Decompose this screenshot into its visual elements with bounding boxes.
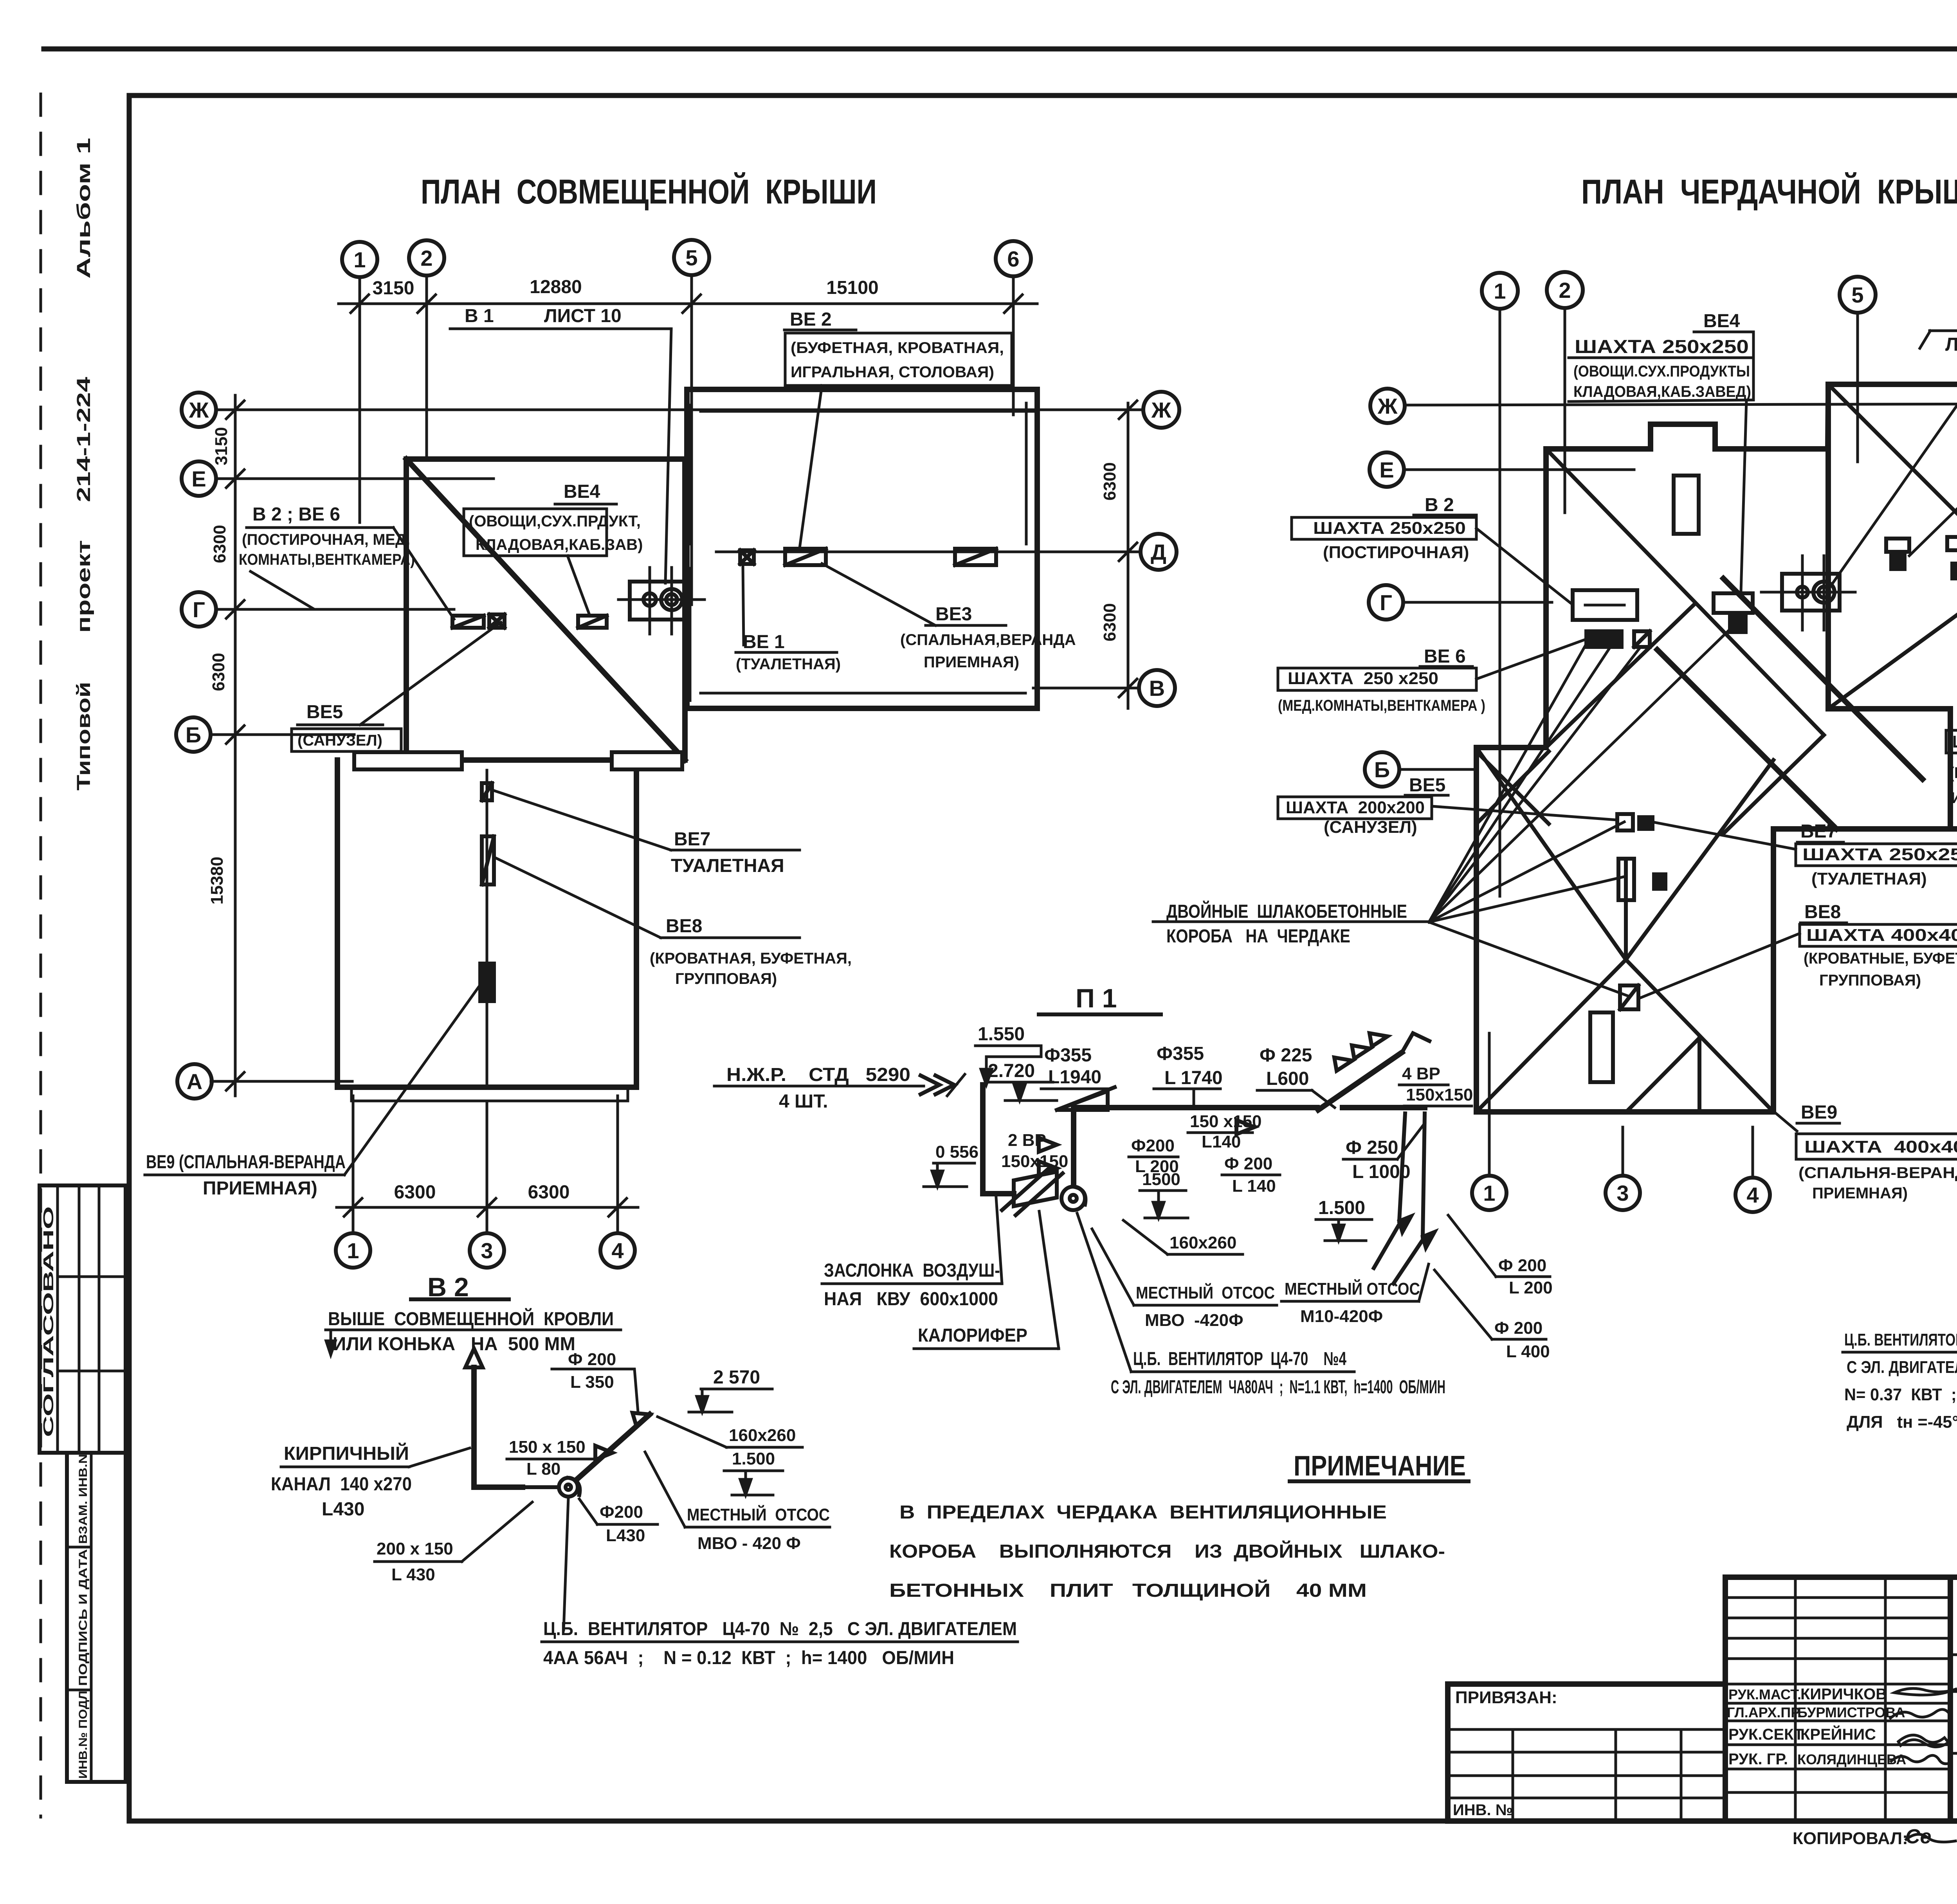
svg-text:В 2 ; ВЕ 6: В 2 ; ВЕ 6 xyxy=(252,504,340,525)
svg-text:Типовой: Типовой xyxy=(74,682,94,791)
svg-text:150 х 150: 150 х 150 xyxy=(509,1437,586,1457)
svg-text:ПРИВЯЗАН:: ПРИВЯЗАН: xyxy=(1455,1688,1557,1707)
svg-text:МЕСТНЫЙ ОТСОС: МЕСТНЫЙ ОТСОС xyxy=(1136,1283,1275,1302)
svg-text:2 570: 2 570 xyxy=(713,1367,760,1388)
svg-text:ЛИСТ 10: ЛИСТ 10 xyxy=(544,306,622,326)
svg-text:3: 3 xyxy=(481,1238,493,1263)
svg-text:L 1740: L 1740 xyxy=(1164,1068,1223,1088)
svg-text:КАНАЛ 140 х270: КАНАЛ 140 х270 xyxy=(271,1474,412,1495)
svg-text:проект: проект xyxy=(74,540,94,633)
svg-text:ПЛАН СОВМЕЩЕННОЙ КРЫШИ: ПЛАН СОВМЕЩЕННОЙ КРЫШИ xyxy=(421,172,877,211)
svg-text:L1940: L1940 xyxy=(1048,1067,1101,1088)
svg-text:160х260: 160х260 xyxy=(729,1426,796,1445)
svg-text:КРЕЙНИС: КРЕЙНИС xyxy=(1800,1725,1876,1743)
svg-text:РУК.СЕКТ: РУК.СЕКТ xyxy=(1728,1726,1804,1743)
svg-text:ШАХТА 200х200: ШАХТА 200х200 xyxy=(1286,798,1425,817)
svg-text:L600: L600 xyxy=(1266,1068,1309,1089)
svg-text:Г: Г xyxy=(1380,590,1392,615)
svg-text:Ф 225: Ф 225 xyxy=(1260,1045,1312,1066)
svg-text:5: 5 xyxy=(685,245,697,270)
svg-text:ВЕ9 (СПАЛЬНАЯ-ВЕРАНДА: ВЕ9 (СПАЛЬНАЯ-ВЕРАНДА xyxy=(146,1152,346,1173)
svg-text:ШАХТА 250х250: ШАХТА 250х250 xyxy=(1802,845,1957,864)
svg-text:КОЛЯДИНЦЕВА: КОЛЯДИНЦЕВА xyxy=(1797,1751,1906,1767)
svg-text:1: 1 xyxy=(353,247,366,272)
svg-text:ГЛ.АРХ.ПР.: ГЛ.АРХ.ПР. xyxy=(1727,1704,1802,1720)
svg-text:214-1-224: 214-1-224 xyxy=(74,377,94,502)
svg-text:ЗАСЛОНКА ВОЗДУШ-: ЗАСЛОНКА ВОЗДУШ- xyxy=(824,1260,1000,1281)
svg-text:МВО -420Ф: МВО -420Ф xyxy=(1145,1311,1243,1330)
svg-text:Ц.Б. ВЕНТИЛЯТОР Ц4-70№3,2: Ц.Б. ВЕНТИЛЯТОР Ц4-70№3,2 xyxy=(1844,1330,1957,1349)
svg-text:(БУФЕТНАЯ, КРОВАТНАЯ,: (БУФЕТНАЯ, КРОВАТНАЯ, xyxy=(791,339,1004,357)
svg-text:(МЕД.КОМНАТЫ,ВЕНТКАМЕРА ): (МЕД.КОМНАТЫ,ВЕНТКАМЕРА ) xyxy=(1278,697,1485,714)
svg-text:12880: 12880 xyxy=(530,277,582,297)
svg-text:L 80: L 80 xyxy=(526,1459,560,1479)
svg-text:ШАХТА 400х400: ШАХТА 400х400 xyxy=(1952,732,1957,751)
svg-text:В 2: В 2 xyxy=(1425,495,1454,515)
svg-text:ИГРАЛЬНАЯ -СТОЛОВАЯ): ИГРАЛЬНАЯ -СТОЛОВАЯ) xyxy=(1951,789,1957,807)
svg-text:L 140: L 140 xyxy=(1232,1176,1276,1196)
svg-text:1: 1 xyxy=(347,1238,359,1263)
svg-text:Ф200: Ф200 xyxy=(1131,1136,1175,1155)
svg-text:ПРИМЕЧАНИЕ: ПРИМЕЧАНИЕ xyxy=(1294,1450,1466,1482)
svg-text:(СПАЛЬНАЯ,ВЕРАНДА: (СПАЛЬНАЯ,ВЕРАНДА xyxy=(900,631,1076,648)
svg-text:L 430: L 430 xyxy=(391,1565,435,1584)
svg-text:ИНВ.№ ПОДЛ: ИНВ.№ ПОДЛ xyxy=(77,1691,90,1779)
svg-text:Ф355: Ф355 xyxy=(1157,1043,1204,1064)
svg-text:ПРИЕМНАЯ): ПРИЕМНАЯ) xyxy=(203,1178,317,1199)
svg-text:ВЕ8: ВЕ8 xyxy=(1804,902,1841,922)
svg-text:Ж: Ж xyxy=(1151,398,1171,422)
svg-text:КИРПИЧНЫЙ: КИРПИЧНЫЙ xyxy=(284,1443,409,1464)
svg-text:(ОВОЩИ.СУХ.ПРОДУКТЫ: (ОВОЩИ.СУХ.ПРОДУКТЫ xyxy=(1573,363,1750,380)
svg-text:С ЭЛ. ДВИГАТЕЛЕМ ЧА80АЧ ; N: С ЭЛ. ДВИГАТЕЛЕМ ЧА80АЧ ; N=1.1 КВТ, h=1… xyxy=(1111,1377,1445,1398)
svg-text:ПОДПИСЬ И ДАТА: ПОДПИСЬ И ДАТА xyxy=(77,1549,90,1686)
svg-text:ТУАЛЕТНАЯ: ТУАЛЕТНАЯ xyxy=(671,856,784,876)
svg-text:ВЫШЕ СОВМЕЩЕННОЙ КРОВЛИ: ВЫШЕ СОВМЕЩЕННОЙ КРОВЛИ xyxy=(328,1308,614,1329)
svg-text:ИЛИ КОНЬКА НА 500 ММ: ИЛИ КОНЬКА НА 500 ММ xyxy=(333,1334,575,1355)
svg-text:L 400: L 400 xyxy=(1506,1342,1550,1361)
svg-text:СОГЛАСОВАНО: СОГЛАСОВАНО xyxy=(40,1206,56,1437)
svg-text:Се: Се xyxy=(1905,1825,1931,1848)
svg-text:Е: Е xyxy=(191,467,206,491)
svg-text:ИНВ. №: ИНВ. № xyxy=(1453,1801,1513,1819)
svg-text:6: 6 xyxy=(1007,247,1019,271)
svg-text:ВЕ5: ВЕ5 xyxy=(1409,775,1445,796)
svg-text:1500: 1500 xyxy=(1142,1170,1180,1189)
svg-text:Б: Б xyxy=(1374,757,1390,782)
svg-text:В 1: В 1 xyxy=(465,306,494,326)
svg-text:2.720: 2.720 xyxy=(988,1061,1035,1081)
svg-text:Б: Б xyxy=(186,722,201,747)
svg-text:200 х 150: 200 х 150 xyxy=(377,1539,453,1558)
svg-text:ВЕ 1: ВЕ 1 xyxy=(743,632,785,652)
svg-text:РУК.МАСТ.: РУК.МАСТ. xyxy=(1728,1686,1801,1702)
svg-text:РУК. ГР.: РУК. ГР. xyxy=(1728,1751,1788,1768)
svg-text:ВЕ5: ВЕ5 xyxy=(306,702,343,722)
svg-text:3: 3 xyxy=(1616,1181,1629,1205)
svg-text:4: 4 xyxy=(1746,1183,1759,1207)
svg-text:КОМНАТЫ,ВЕНТКАМЕРА): КОМНАТЫ,ВЕНТКАМЕРА) xyxy=(239,551,415,568)
svg-text:ВЕ9: ВЕ9 xyxy=(1801,1102,1837,1123)
svg-text:150х150: 150х150 xyxy=(1406,1085,1473,1104)
svg-text:(ТУАЛЕТНАЯ): (ТУАЛЕТНАЯ) xyxy=(1811,869,1927,888)
svg-text:ПЛАН ЧЕРДАЧНОЙ КРЫШИ: ПЛАН ЧЕРДАЧНОЙ КРЫШИ xyxy=(1581,172,1957,211)
svg-text:ДЛЯ tн =-45° , -50°: ДЛЯ tн =-45° , -50° xyxy=(1847,1412,1957,1432)
svg-text:L430: L430 xyxy=(606,1526,645,1545)
svg-text:НАЯ КВУ 600х1000: НАЯ КВУ 600х1000 xyxy=(824,1289,998,1310)
svg-text:ВЕ7: ВЕ7 xyxy=(674,829,710,850)
svg-text:(ПОСТИРОЧНАЯ): (ПОСТИРОЧНАЯ) xyxy=(1323,543,1469,562)
svg-text:Ф355: Ф355 xyxy=(1044,1045,1092,1066)
svg-text:ДВОЙНЫЕ ШЛАКОБЕТОННЫЕ: ДВОЙНЫЕ ШЛАКОБЕТОННЫЕ xyxy=(1166,901,1407,922)
svg-text:N= 0.37 КВТ ; h=1400 ОБ/М: N= 0.37 КВТ ; h=1400 ОБ/МИН xyxy=(1844,1385,1957,1404)
svg-text:ПРИЕМНАЯ): ПРИЕМНАЯ) xyxy=(1812,1185,1908,1202)
svg-text:Ж: Ж xyxy=(1377,394,1398,418)
svg-text:3150: 3150 xyxy=(212,427,231,465)
svg-text:В ПРЕДЕЛАХ ЧЕРДАКА ВЕНТИЛЯЦ: В ПРЕДЕЛАХ ЧЕРДАКА ВЕНТИЛЯЦИОННЫЕ xyxy=(899,1502,1387,1523)
svg-text:ПРИЕМНАЯ): ПРИЕМНАЯ) xyxy=(924,654,1019,671)
svg-text:ЛИСТ 10: ЛИСТ 10 xyxy=(1945,334,1957,355)
svg-text:ШАХТА 250 х250: ШАХТА 250 х250 xyxy=(1288,669,1438,688)
svg-text:Ф 200: Ф 200 xyxy=(568,1350,616,1369)
svg-text:(КРОВАТНЫЕ, БУФЕТНАЯ,: (КРОВАТНЫЕ, БУФЕТНАЯ, xyxy=(1804,950,1957,967)
svg-text:ШАХТА 400х400: ШАХТА 400х400 xyxy=(1806,926,1957,945)
svg-text:(САНУЗЕЛ): (САНУЗЕЛ) xyxy=(1324,818,1417,837)
svg-text:Ф 200: Ф 200 xyxy=(1494,1319,1543,1338)
svg-text:(СПАЛЬНЯ-ВЕРАНДА,: (СПАЛЬНЯ-ВЕРАНДА, xyxy=(1798,1164,1957,1182)
svg-text:6300: 6300 xyxy=(528,1182,570,1203)
svg-text:1: 1 xyxy=(1494,279,1506,303)
svg-text:6300: 6300 xyxy=(1100,603,1119,641)
svg-text:КОПИРОВАЛ:: КОПИРОВАЛ: xyxy=(1793,1829,1908,1848)
svg-text:ИГРАЛЬНАЯ, СТОЛОВАЯ): ИГРАЛЬНАЯ, СТОЛОВАЯ) xyxy=(791,364,994,381)
svg-text:15380: 15380 xyxy=(207,857,227,904)
svg-text:МЕСТНЫЙ ОТСОС: МЕСТНЫЙ ОТСОС xyxy=(1285,1279,1420,1299)
svg-text:ВЗАМ. ИНВ.N: ВЗАМ. ИНВ.N xyxy=(77,1454,90,1544)
svg-text:С ЭЛ. ДВИГАТЕЛЕМ 4АА 63В4: С ЭЛ. ДВИГАТЕЛЕМ 4АА 63В4 xyxy=(1847,1358,1957,1377)
svg-text:(ПОСТИРОЧНАЯ, МЕД.: (ПОСТИРОЧНАЯ, МЕД. xyxy=(242,531,410,548)
svg-text:МВО - 420 Ф: МВО - 420 Ф xyxy=(697,1534,801,1553)
svg-text:КАЛОРИФЕР: КАЛОРИФЕР xyxy=(918,1325,1027,1346)
svg-text:Альбом 1: Альбом 1 xyxy=(74,138,94,279)
svg-text:ВЕ7: ВЕ7 xyxy=(1800,821,1837,842)
svg-text:Н.Ж.Р. СТД 5290: Н.Ж.Р. СТД 5290 xyxy=(726,1065,910,1085)
svg-text:L 200: L 200 xyxy=(1509,1278,1553,1297)
svg-text:ШАХТА 250х250: ШАХТА 250х250 xyxy=(1313,519,1466,538)
svg-text:1.550: 1.550 xyxy=(978,1024,1025,1045)
svg-text:6300: 6300 xyxy=(209,653,228,691)
svg-text:4 ШТ.: 4 ШТ. xyxy=(779,1091,828,1112)
svg-text:ВЕ 2: ВЕ 2 xyxy=(790,309,832,330)
svg-text:(КРОВАТНАЯ, БУФЕТНАЯ,: (КРОВАТНАЯ, БУФЕТНАЯ, xyxy=(650,950,852,967)
svg-text:L 350: L 350 xyxy=(570,1373,614,1392)
svg-text:Ф200: Ф200 xyxy=(600,1502,643,1522)
svg-text:1.500: 1.500 xyxy=(1318,1198,1365,1218)
svg-text:15100: 15100 xyxy=(826,277,878,298)
svg-text:1.500: 1.500 xyxy=(732,1449,775,1468)
svg-text:ВЕ4: ВЕ4 xyxy=(1703,311,1740,331)
svg-text:ВЕ8: ВЕ8 xyxy=(666,916,702,937)
svg-text:КЛАДОВАЯ,КАБ.ЗАВЕД): КЛАДОВАЯ,КАБ.ЗАВЕД) xyxy=(1573,383,1751,400)
svg-text:КИРИЧКОВ: КИРИЧКОВ xyxy=(1800,1686,1887,1703)
svg-text:2: 2 xyxy=(1559,278,1571,303)
svg-text:3150: 3150 xyxy=(373,278,414,299)
svg-text:(БУФЕТНАЯ, КРОВАТНЫЕ,: (БУФЕТНАЯ, КРОВАТНЫЕ, xyxy=(1949,764,1957,782)
svg-text:ВЕ3: ВЕ3 xyxy=(935,604,972,625)
svg-text:6300: 6300 xyxy=(210,525,229,563)
svg-text:КЛАДОВАЯ,КАБ.ЗАВ): КЛАДОВАЯ,КАБ.ЗАВ) xyxy=(476,536,643,553)
svg-text:Ц.Б. ВЕНТИЛЯТОР Ц4-70 № 2: Ц.Б. ВЕНТИЛЯТОР Ц4-70 № 2,5 С ЭЛ. ДВИГАТ… xyxy=(543,1619,1017,1639)
svg-text:БЕТОННЫХ ПЛИТ ТОЛЩИНОЙ: БЕТОННЫХ ПЛИТ ТОЛЩИНОЙ 40 ММ xyxy=(889,1580,1367,1601)
svg-text:6300: 6300 xyxy=(394,1182,436,1203)
svg-text:6300: 6300 xyxy=(1100,462,1119,501)
svg-text:4: 4 xyxy=(611,1238,624,1263)
svg-text:1: 1 xyxy=(1483,1181,1495,1205)
svg-text:Ф 250: Ф 250 xyxy=(1346,1137,1398,1158)
svg-text:2: 2 xyxy=(420,246,432,270)
svg-text:5: 5 xyxy=(1851,283,1863,307)
svg-text:160х260: 160х260 xyxy=(1170,1233,1236,1252)
svg-text:КОРОБА ВЫПОЛНЯЮТСЯ ИЗ Д: КОРОБА ВЫПОЛНЯЮТСЯ ИЗ ДВОЙНЫХ ШЛАКО- xyxy=(889,1540,1445,1562)
svg-text:П 1: П 1 xyxy=(1076,984,1117,1013)
svg-text:L430: L430 xyxy=(322,1499,364,1520)
svg-text:ШАХТА 400х400: ШАХТА 400х400 xyxy=(1804,1137,1957,1156)
svg-text:4 ВР: 4 ВР xyxy=(1402,1064,1440,1083)
svg-text:Ф 200: Ф 200 xyxy=(1224,1154,1272,1173)
svg-text:ШАХТА 250х250: ШАХТА 250х250 xyxy=(1575,337,1749,357)
svg-text:(ТУАЛЕТНАЯ): (ТУАЛЕТНАЯ) xyxy=(736,656,841,673)
svg-text:МЕСТНЫЙ ОТСОС: МЕСТНЫЙ ОТСОС xyxy=(687,1504,830,1524)
svg-text:ГРУППОВАЯ): ГРУППОВАЯ) xyxy=(1819,972,1921,989)
svg-text:4АА 56АЧ ; N = 0.12 КВТ: 4АА 56АЧ ; N = 0.12 КВТ ; h= 1400 ОБ/МИН xyxy=(543,1648,954,1668)
svg-text:А: А xyxy=(187,1069,202,1094)
svg-text:КОРОБА НА ЧЕРДАКЕ: КОРОБА НА ЧЕРДАКЕ xyxy=(1166,926,1350,947)
svg-text:В: В xyxy=(1149,676,1165,701)
svg-text:Ж: Ж xyxy=(189,398,209,422)
svg-text:Г: Г xyxy=(193,597,205,622)
svg-text:Е: Е xyxy=(1379,458,1394,482)
svg-text:Ц.Б. ВЕНТИЛЯТОР Ц4-70 №4: Ц.Б. ВЕНТИЛЯТОР Ц4-70 №4 xyxy=(1133,1349,1346,1369)
svg-text:ВЕ 6: ВЕ 6 xyxy=(1424,646,1466,667)
svg-text:ВЕ4: ВЕ4 xyxy=(564,481,600,502)
svg-text:ГРУППОВАЯ): ГРУППОВАЯ) xyxy=(675,970,777,987)
svg-text:(САНУЗЕЛ): (САНУЗЕЛ) xyxy=(297,732,382,749)
svg-text:(ОВОЩИ,СУХ.ПРДУКТ,: (ОВОЩИ,СУХ.ПРДУКТ, xyxy=(469,513,641,530)
svg-text:Ф 200: Ф 200 xyxy=(1498,1256,1546,1275)
svg-text:Д: Д xyxy=(1151,540,1166,564)
svg-text:М10-420Ф: М10-420Ф xyxy=(1300,1307,1383,1326)
svg-text:0 556: 0 556 xyxy=(935,1142,979,1162)
